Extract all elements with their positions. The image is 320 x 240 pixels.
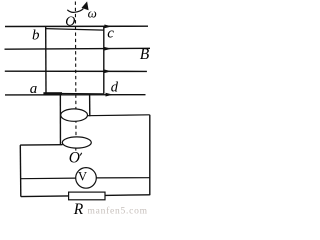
field line B2 — [5, 47, 151, 50]
coil right side cd — [103, 27, 105, 94]
rotation axis (dashed) — [74, 2, 77, 138]
resistor R box — [69, 192, 105, 200]
rotation arrowhead — [82, 1, 89, 10]
field line B2 arrowhead — [104, 47, 112, 51]
field line B4 — [5, 94, 146, 96]
svg-text:O: O — [65, 15, 75, 30]
svg-text:a: a — [30, 81, 38, 97]
svg-text:d: d — [111, 80, 119, 96]
wire: right lead from coil to ring 1 — [89, 94, 91, 117]
svg-text:manfen5.com: manfen5.com — [88, 205, 148, 216]
slip ring 1 — [61, 109, 88, 121]
wire: left rail — [19, 145, 22, 197]
wire: left lead from coil to ring 2 level — [59, 93, 61, 145]
svg-text:ω: ω — [88, 5, 97, 20]
axis tick below ring 2 — [75, 148, 77, 150]
svg-text:R: R — [73, 201, 84, 218]
svg-text:V: V — [78, 170, 87, 184]
wire: voltmeter branch right — [96, 177, 150, 179]
coil top side bc — [46, 29, 104, 31]
prime mark of O' — [80, 153, 82, 156]
rotation arc — [67, 9, 83, 13]
wire: right rail — [149, 115, 151, 195]
field line B1 arrowhead — [104, 25, 112, 29]
slip ring 2 — [62, 137, 91, 148]
field line B4 arrowhead — [106, 93, 114, 97]
wire: resistor to right rail — [105, 194, 150, 197]
field line B1 — [5, 25, 148, 27]
coil left side ba — [45, 27, 47, 94]
thick contact bar near a — [43, 92, 62, 95]
wire: voltmeter branch left — [21, 177, 77, 180]
wire: bottom left to resistor — [21, 195, 69, 198]
wire: ring2 to left rail — [20, 144, 62, 146]
voltmeter V — [76, 168, 97, 189]
coil bottom side ad — [46, 92, 104, 95]
field line B3 — [5, 70, 147, 72]
field line B3 arrowhead — [104, 69, 112, 73]
svg-text:b: b — [32, 28, 40, 44]
wire: ring1 to right rail — [87, 114, 149, 117]
svg-text:B: B — [140, 46, 150, 63]
svg-text:c: c — [107, 25, 114, 41]
svg-text:O: O — [69, 149, 80, 166]
